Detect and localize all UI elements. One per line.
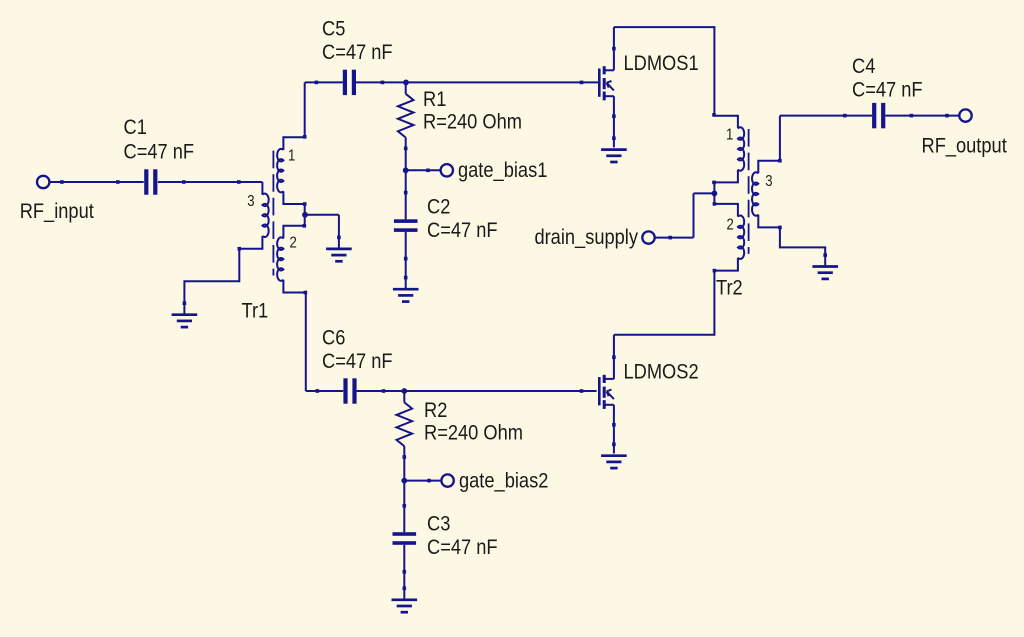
junction Tr2 tap <box>712 191 718 197</box>
Tr2 terminal <box>778 226 782 230</box>
Tr1 terminal <box>303 135 307 139</box>
node <box>404 191 408 195</box>
svg-text:C=47 nF: C=47 nF <box>124 140 195 164</box>
wire <box>405 232 407 289</box>
svg-text:Tr2: Tr2 <box>716 276 743 300</box>
Tr1 terminal <box>303 224 307 228</box>
wire <box>885 115 959 117</box>
node <box>427 479 431 483</box>
node <box>183 301 187 305</box>
capacitor C4 <box>872 103 885 128</box>
port drain_supply <box>642 231 654 243</box>
wire <box>305 81 343 83</box>
wire <box>357 390 597 392</box>
ground <box>392 600 418 612</box>
node <box>382 389 386 393</box>
transformer Tr1 winding 2 <box>283 226 304 239</box>
wire <box>693 193 695 237</box>
wire <box>304 82 306 137</box>
wire <box>338 215 340 249</box>
svg-text:C6: C6 <box>322 326 345 350</box>
svg-text:C4: C4 <box>852 55 875 79</box>
transformer Tr2 winding 2 <box>714 204 738 217</box>
junction gate_bias2 <box>401 478 407 484</box>
svg-text:drain_supply: drain_supply <box>534 226 638 250</box>
wire <box>49 181 143 183</box>
ground <box>812 267 838 279</box>
wire <box>406 169 441 171</box>
LDMOS2 bulk arrow <box>607 392 614 399</box>
node <box>612 136 616 140</box>
svg-text:3: 3 <box>765 173 772 190</box>
port RF_input <box>37 176 49 188</box>
Tr1 terminal <box>238 247 242 251</box>
port gate_bias2 <box>441 474 453 486</box>
svg-text:C2: C2 <box>427 195 450 219</box>
node <box>910 114 914 118</box>
junction Tr1 tap <box>302 212 308 218</box>
transformer Tr1 core <box>272 151 274 276</box>
wire <box>713 182 715 204</box>
transistor LDMOS1 source <box>604 95 614 97</box>
node <box>403 570 407 574</box>
svg-text:LDMOS1: LDMOS1 <box>624 51 699 75</box>
wire <box>655 237 694 239</box>
resistor R1 <box>405 82 407 93</box>
transistor LDMOS1 channel <box>603 66 606 74</box>
R2 terminal <box>403 455 407 459</box>
svg-text:1: 1 <box>726 126 733 143</box>
junction C5-R1 <box>403 80 409 86</box>
port gate_bias1 <box>441 164 453 176</box>
svg-text:C=47 nF: C=47 nF <box>322 40 393 64</box>
svg-text:C=47 nF: C=47 nF <box>427 219 498 243</box>
transformer Tr1 winding 3 <box>261 182 263 195</box>
node <box>182 180 186 184</box>
node <box>612 443 616 447</box>
wire <box>694 192 715 194</box>
node <box>945 114 949 118</box>
svg-text:C=47 nF: C=47 nF <box>322 350 393 374</box>
LDMOS2 drain terminal <box>612 355 616 359</box>
wire <box>780 227 825 266</box>
Tr2 terminal <box>712 181 716 185</box>
transformer Tr2 winding 3 <box>758 161 780 174</box>
Tr2 terminal <box>713 269 717 273</box>
wire <box>614 271 715 335</box>
node <box>580 389 584 393</box>
transistor LDMOS1 drain <box>604 69 614 71</box>
capacitor C6 <box>343 378 356 403</box>
svg-text:Tr1: Tr1 <box>242 299 269 323</box>
node <box>337 236 341 240</box>
svg-text:C1: C1 <box>124 116 147 140</box>
svg-text:3: 3 <box>247 193 254 210</box>
svg-text:C3: C3 <box>427 512 450 536</box>
port RF_output <box>959 109 971 121</box>
transformer Tr2 core <box>748 129 750 254</box>
transformer Tr2 winding 1 <box>714 116 738 129</box>
junction gate_bias1 <box>403 167 409 173</box>
wire <box>405 170 407 219</box>
svg-text:gate_bias2: gate_bias2 <box>459 469 548 493</box>
LDMOS1 drain terminal <box>612 47 616 51</box>
transformer Tr1 winding 1 <box>283 137 304 150</box>
wire <box>403 545 405 600</box>
wire <box>614 27 715 116</box>
wire <box>306 390 343 392</box>
svg-text:2: 2 <box>290 234 297 251</box>
svg-text:R2: R2 <box>424 399 447 423</box>
LDMOS1 source terminal <box>612 114 616 118</box>
capacitor C5 <box>343 70 356 95</box>
svg-text:R=240 Ohm: R=240 Ohm <box>424 421 523 445</box>
wire <box>305 293 307 392</box>
svg-text:LDMOS2: LDMOS2 <box>624 360 699 384</box>
transistor LDMOS1 gate bar <box>598 69 601 97</box>
svg-text:C=47 nF: C=47 nF <box>427 535 498 559</box>
wire <box>184 249 239 315</box>
node <box>316 389 320 393</box>
Tr1 terminal <box>303 202 307 206</box>
ground <box>326 249 352 261</box>
LDMOS1 bulk arrow <box>607 83 614 90</box>
node <box>580 81 584 85</box>
node <box>404 257 408 261</box>
svg-text:C5: C5 <box>322 17 345 41</box>
node <box>404 276 408 280</box>
node <box>403 587 407 591</box>
ground <box>172 315 198 327</box>
wire <box>356 81 598 83</box>
svg-text:gate_bias1: gate_bias1 <box>458 159 547 183</box>
node <box>381 81 385 85</box>
svg-text:R1: R1 <box>423 88 446 112</box>
svg-text:RF_input: RF_input <box>20 200 95 224</box>
svg-text:C=47 nF: C=47 nF <box>852 78 923 102</box>
Tr1 terminal <box>304 291 308 295</box>
node <box>315 81 319 85</box>
capacitor C2 <box>394 219 418 232</box>
Tr2 terminal <box>712 113 716 117</box>
wire <box>780 115 872 117</box>
node <box>843 114 847 118</box>
junction C6-R2 <box>401 388 407 394</box>
ground <box>601 150 627 162</box>
svg-text:RF_output: RF_output <box>922 134 1008 158</box>
wire <box>158 181 263 183</box>
wire <box>403 481 405 533</box>
svg-text:2: 2 <box>727 216 734 233</box>
wire <box>305 214 339 216</box>
resistor R2 <box>403 391 405 402</box>
transistor LDMOS2 drain <box>604 378 614 380</box>
capacitor C3 <box>393 532 417 545</box>
Tr2 terminal <box>713 202 717 206</box>
ground <box>393 289 419 301</box>
node <box>668 236 672 240</box>
Tr2 terminal <box>778 159 782 163</box>
ground <box>601 456 627 468</box>
R1 terminal <box>404 147 408 151</box>
svg-text:R=240 Ohm: R=240 Ohm <box>423 110 522 134</box>
node <box>60 180 64 184</box>
node <box>403 504 407 508</box>
LDMOS2 source terminal <box>612 423 616 427</box>
wire <box>779 116 781 161</box>
transistor LDMOS2 channel <box>603 375 606 383</box>
transistor LDMOS2 gate bar <box>598 377 601 405</box>
node <box>426 169 430 173</box>
node <box>116 180 120 184</box>
svg-text:1: 1 <box>288 148 295 165</box>
wire <box>404 480 441 482</box>
capacitor C1 <box>144 169 157 194</box>
node <box>237 180 241 184</box>
node <box>823 253 827 257</box>
wire <box>304 204 306 226</box>
transistor LDMOS2 source <box>604 404 614 406</box>
